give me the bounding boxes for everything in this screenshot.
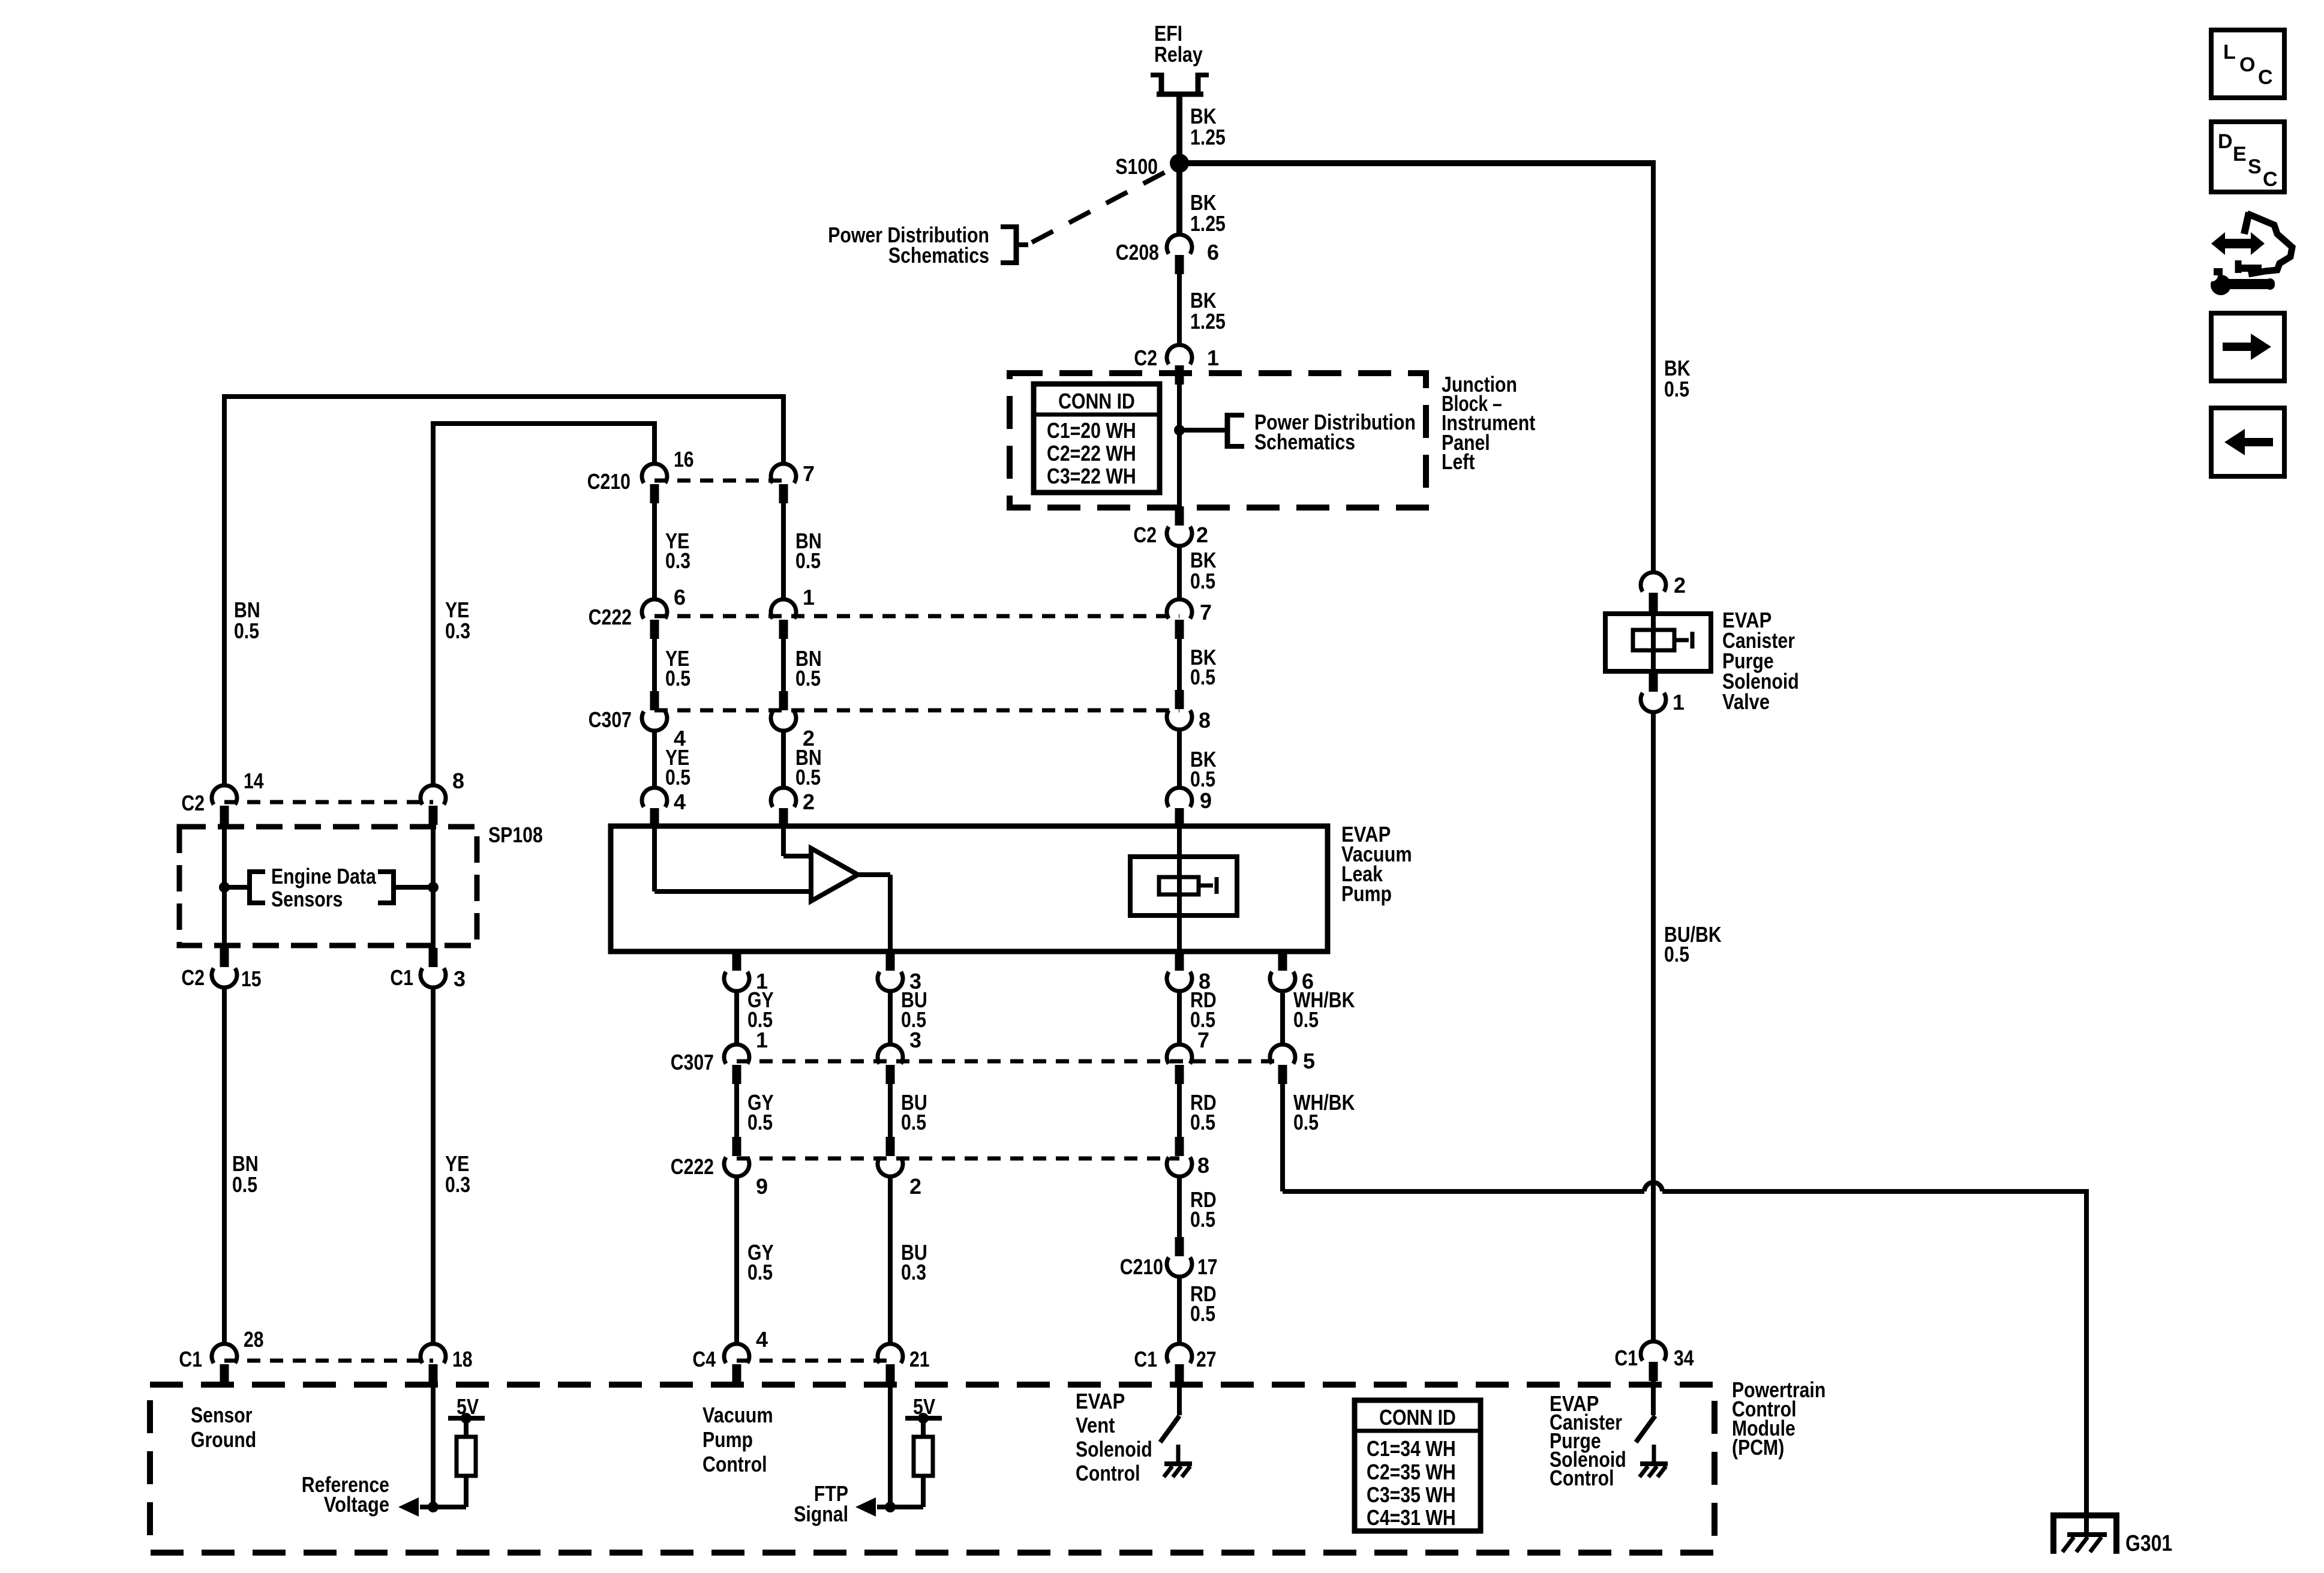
- label C2 (pin2): [1133, 523, 1157, 547]
- label EVAP Canister Purge Solenoid Valve: [1722, 608, 1799, 714]
- label WH/BK 0.5 a: [1293, 987, 1355, 1032]
- label YE 0.3 left lower: [445, 1151, 470, 1197]
- svg-text:S: S: [2248, 155, 2262, 178]
- label YE 0.3 left upper: [445, 598, 470, 643]
- svg-text:C307: C307: [671, 1050, 714, 1074]
- svg-text:0.5: 0.5: [1190, 569, 1215, 593]
- CONN ID table (PCM): [1355, 1400, 1481, 1531]
- svg-text:3: 3: [454, 966, 466, 991]
- connector C1 pin 27: [1167, 1344, 1192, 1383]
- ground symbol G301: [2050, 1512, 2119, 1554]
- svg-text:C: C: [2258, 66, 2273, 89]
- svg-text:0.3: 0.3: [445, 619, 470, 643]
- svg-text:2: 2: [909, 1174, 921, 1199]
- svg-text:18: 18: [452, 1347, 473, 1371]
- label EVAP Canister Purge Solenoid Control: [1550, 1391, 1626, 1490]
- label pin 14: [244, 769, 264, 793]
- svg-text:7: 7: [1197, 1028, 1209, 1052]
- label 5V left: [457, 1394, 479, 1419]
- connector pump pin 3: [878, 951, 903, 991]
- node dot FTP signal: [885, 1502, 896, 1512]
- wire S100 branch to right: [1179, 160, 1656, 166]
- svg-text:C222: C222: [588, 605, 632, 629]
- svg-text:21: 21: [909, 1347, 930, 1371]
- svg-text:7: 7: [803, 461, 815, 486]
- wire RD C222 to C210: [1177, 1176, 1182, 1237]
- connector C307 pin 1: [724, 1044, 749, 1084]
- label RD 0.5 d: [1190, 1281, 1217, 1326]
- wire stub to right bracket: [394, 885, 433, 890]
- wire YE 16 to C222-6: [652, 503, 657, 599]
- label pin 8 (C222l): [1197, 1153, 1209, 1178]
- label pin 16: [674, 447, 694, 472]
- label YE 0.5 mid: [665, 646, 690, 691]
- connector pin 9 (pump): [1167, 788, 1192, 827]
- label Sensor Ground: [191, 1403, 256, 1452]
- wire RD C307 to C222: [1177, 1084, 1182, 1137]
- chassis ground (purge driver): [1640, 1464, 1668, 1477]
- svg-text:6: 6: [674, 585, 686, 610]
- label pin 27: [1196, 1347, 1217, 1371]
- label Reference Voltage: [302, 1472, 389, 1517]
- label EVAP Vent Solenoid Control: [1076, 1389, 1152, 1485]
- dashed connector line C1 28-18: [224, 1359, 433, 1363]
- svg-text:34: 34: [1674, 1346, 1694, 1370]
- connector C307 pin 4: [642, 691, 667, 731]
- wire YE horizontal top: [431, 421, 657, 426]
- label pin 15: [241, 966, 262, 991]
- icon LOC box: [2211, 30, 2284, 98]
- label pin 6 of C208: [1207, 240, 1219, 265]
- label pin 2 (C222l): [909, 1174, 921, 1199]
- wire GY C222 to C4: [734, 1176, 739, 1344]
- wire GY pump to C307: [734, 991, 739, 1044]
- switch arm EVAP vent solenoid driver: [1160, 1416, 1179, 1442]
- EFI relay connector symbol: [1151, 73, 1209, 94]
- svg-text:0.5: 0.5: [1190, 1110, 1215, 1134]
- wire YE column upper: [652, 424, 657, 464]
- arrowhead reference voltage: [398, 1497, 419, 1517]
- svg-text:0.5: 0.5: [665, 765, 690, 789]
- wire resistor left down: [464, 1476, 469, 1507]
- label pin 8 (C2): [452, 769, 464, 793]
- svg-text:0.5: 0.5: [1190, 1207, 1215, 1232]
- wire pump pin4 to op-amp: [654, 827, 811, 891]
- label pin 5 (C307l): [1303, 1049, 1315, 1073]
- dashed connector line C307 4-2-8: [654, 709, 1179, 713]
- label C2 (pin1): [1134, 346, 1157, 370]
- connector C4 pin 4: [724, 1344, 749, 1383]
- connector C222 pin 8: [1167, 1137, 1192, 1176]
- svg-text:15: 15: [241, 966, 262, 991]
- label WH/BK 0.5 b: [1293, 1090, 1355, 1134]
- label BK 0.5 trunk mid: [1190, 645, 1217, 689]
- svg-text:0.5: 0.5: [795, 765, 821, 789]
- label 5V right: [913, 1394, 935, 1419]
- svg-text:0.5: 0.5: [1293, 1007, 1319, 1032]
- svg-text:Ground: Ground: [191, 1427, 256, 1452]
- svg-text:C1=20 WH: C1=20 WH: [1047, 418, 1136, 443]
- connector C210 pin 17: [1167, 1237, 1192, 1277]
- svg-text:C222: C222: [671, 1154, 714, 1179]
- wire sensor-ground through SP108: [222, 825, 227, 948]
- wire 5V to resistor left: [464, 1418, 469, 1437]
- label C222: [588, 605, 632, 629]
- wire BN to C1-28: [222, 987, 227, 1344]
- svg-text:C1: C1: [390, 965, 413, 990]
- label Vacuum Pump Control: [702, 1403, 773, 1476]
- label Power Distribution Schematics (top): [828, 223, 989, 268]
- wire BU pump to C307: [888, 991, 893, 1044]
- node dot on BN wire (engine data): [219, 882, 230, 893]
- wire pump pin2 to op-amp: [783, 827, 811, 856]
- label YE 0.5 low: [665, 745, 690, 789]
- svg-text:C2: C2: [1133, 523, 1157, 547]
- label pump pin 6: [1302, 969, 1314, 993]
- svg-text:0.5: 0.5: [795, 666, 821, 691]
- label BN 0.5 low: [795, 745, 822, 789]
- svg-text:0.5: 0.5: [234, 619, 259, 643]
- svg-text:1.25: 1.25: [1190, 309, 1226, 334]
- icon schematic-tool (arrow and wrench): [2206, 212, 2292, 295]
- svg-text:C1: C1: [1134, 1347, 1157, 1371]
- label YE 0.3 mid: [665, 529, 690, 573]
- connector C208 pin 6: [1167, 235, 1192, 274]
- svg-text:Control: Control: [1076, 1461, 1140, 1485]
- label GY 0.5 b: [747, 1090, 774, 1134]
- svg-text:2: 2: [803, 789, 815, 814]
- wire vent driver to ground stub: [1176, 1445, 1181, 1464]
- bracket right (engine data sensors): [378, 869, 394, 905]
- label pin 9: [1200, 788, 1212, 813]
- label BK 1.25 below S100: [1190, 190, 1226, 236]
- label pump pin 2: [803, 789, 815, 814]
- label pin 34: [1674, 1346, 1694, 1370]
- svg-text:Voltage: Voltage: [324, 1492, 389, 1517]
- wire BN 7 to C222-1: [781, 503, 786, 599]
- label RD 0.5 b: [1190, 1090, 1217, 1134]
- wire 8 to 9 (BK 0.5): [1177, 730, 1182, 788]
- icon forward arrow box: [2211, 313, 2284, 381]
- svg-text:C210: C210: [1120, 1254, 1163, 1279]
- op-amp triangle (pump): [811, 848, 858, 901]
- wire 5V to resistor right: [921, 1418, 926, 1437]
- connector purge valve pin 1: [1641, 673, 1666, 712]
- svg-text:CONN ID: CONN ID: [1058, 389, 1135, 413]
- svg-text:Schematics: Schematics: [1254, 430, 1355, 454]
- wire 18 into PCM: [431, 1383, 436, 1507]
- svg-text:Signal: Signal: [794, 1502, 848, 1526]
- svg-text:Relay: Relay: [1154, 42, 1203, 67]
- wire BN C307 to pump: [781, 731, 786, 788]
- label C307 (lower): [671, 1050, 714, 1074]
- PCM dashed box: [150, 1385, 1715, 1553]
- wire trunk through pump: [1177, 826, 1182, 951]
- connector C2 pin 1: [1167, 345, 1192, 385]
- dashed pointer line to S100: [1032, 172, 1166, 242]
- svg-text:C210: C210: [587, 469, 630, 494]
- svg-text:1.25: 1.25: [1190, 211, 1226, 236]
- svg-text:CONN ID: CONN ID: [1379, 1405, 1456, 1430]
- label BU 0.3 c: [901, 1240, 927, 1284]
- label pin 2 (C307): [803, 726, 815, 751]
- svg-text:5: 5: [1303, 1049, 1315, 1073]
- connector C222 pin 1: [771, 599, 796, 639]
- label pin 2: [1196, 523, 1208, 547]
- svg-text:C4=31 WH: C4=31 WH: [1367, 1505, 1456, 1530]
- label BN 0.5 left lower: [232, 1151, 259, 1197]
- label purge valve pin 2: [1674, 573, 1686, 598]
- label BK 1.25 upper: [1190, 104, 1226, 149]
- svg-text:0.5: 0.5: [747, 1260, 773, 1284]
- connector C1 pin 28: [212, 1344, 237, 1383]
- svg-text:G301: G301: [2125, 1531, 2172, 1556]
- label FTP Signal: [794, 1481, 848, 1526]
- arrowhead FTP signal: [855, 1497, 876, 1517]
- connector pin 8 (trunk): [1167, 690, 1192, 730]
- label pump pin 3: [909, 969, 921, 993]
- EVAP vacuum leak pump box: [611, 826, 1328, 951]
- svg-text:3: 3: [909, 1028, 921, 1052]
- connector C1 pin 18: [421, 1344, 446, 1383]
- svg-text:17: 17: [1197, 1254, 1218, 1279]
- label pin 7 (C307l): [1197, 1028, 1209, 1052]
- wire 27 into PCM (vent driver): [1177, 1383, 1182, 1415]
- label C1 (3): [390, 965, 413, 990]
- dashed connector line C4 4-21: [737, 1359, 890, 1363]
- label EVAP Vacuum Leak Pump: [1341, 822, 1412, 906]
- svg-text:EVAP: EVAP: [1076, 1389, 1125, 1413]
- label Powertrain Control Module (PCM): [1732, 1377, 1825, 1460]
- bracket for Power Distribution Schematics (top): [1001, 224, 1028, 265]
- svg-text:0.5: 0.5: [901, 1110, 926, 1134]
- wire purge valve to C1-34 (BU/BK 0.5): [1651, 712, 1656, 1341]
- svg-text:0.3: 0.3: [901, 1260, 926, 1284]
- wire 7 to 8 (BK 0.5): [1177, 639, 1182, 690]
- svg-text:Solenoid: Solenoid: [1076, 1437, 1152, 1461]
- bracket left (engine data sensors): [250, 869, 265, 905]
- label purge valve pin 1: [1673, 690, 1685, 715]
- svg-text:C1: C1: [179, 1347, 202, 1371]
- svg-text:E: E: [2233, 143, 2247, 166]
- svg-text:4: 4: [674, 789, 686, 814]
- CONN ID table (junction block): [1034, 384, 1160, 493]
- svg-text:C3=22 WH: C3=22 WH: [1047, 464, 1136, 488]
- label C1 (34): [1614, 1346, 1638, 1370]
- svg-text:1: 1: [756, 1028, 768, 1052]
- label C1 (27): [1134, 1347, 1157, 1371]
- wire stub to left bracket: [224, 885, 250, 890]
- svg-text:D: D: [2218, 130, 2233, 153]
- svg-text:C4: C4: [692, 1347, 716, 1371]
- crossover hop over BU/BK wire: [1644, 1182, 1662, 1191]
- svg-text:8: 8: [1197, 1153, 1209, 1178]
- label S100: [1115, 154, 1158, 179]
- svg-text:0.5: 0.5: [1293, 1110, 1319, 1134]
- svg-text:0.5: 0.5: [795, 548, 821, 573]
- svg-text:2: 2: [1674, 573, 1686, 598]
- connector pump pin 8: [1167, 951, 1192, 991]
- label pin 8 trunk: [1199, 708, 1211, 733]
- wire YE C222 to C307: [652, 639, 657, 691]
- svg-text:C1: C1: [1614, 1346, 1638, 1370]
- connector C222 pin 2: [878, 1137, 903, 1176]
- label C210 (17): [1120, 1254, 1163, 1279]
- label BK 0.5 trunk lower: [1190, 747, 1217, 791]
- label pump pin 4: [674, 789, 686, 814]
- wire left column YE upper: [431, 424, 436, 785]
- svg-text:16: 16: [674, 447, 694, 472]
- resistor R left (reference voltage): [457, 1437, 476, 1476]
- switch arm EVAP purge solenoid driver: [1636, 1416, 1655, 1442]
- svg-text:C208: C208: [1116, 240, 1159, 265]
- wire BN C222 to C307: [781, 639, 786, 691]
- connector C1 pin 3: [421, 948, 446, 987]
- svg-text:0.3: 0.3: [665, 548, 690, 573]
- svg-text:C2: C2: [181, 791, 205, 815]
- svg-text:Vacuum: Vacuum: [702, 1403, 773, 1427]
- svg-text:C307: C307: [588, 707, 632, 732]
- svg-text:C2: C2: [181, 965, 205, 990]
- node dot reference voltage: [428, 1502, 439, 1512]
- label GY 0.5 a: [747, 987, 774, 1032]
- svg-text:14: 14: [244, 769, 264, 793]
- pump solenoid coil element: [1159, 877, 1217, 894]
- connector pin 7 (trunk): [1167, 599, 1192, 639]
- label BU/BK 0.5: [1664, 922, 1722, 966]
- label Engine Data Sensors: [271, 864, 377, 911]
- svg-text:Pump: Pump: [1341, 881, 1392, 906]
- svg-text:Control: Control: [1550, 1466, 1614, 1490]
- label pin 1: [1207, 346, 1219, 370]
- svg-text:0.5: 0.5: [1664, 942, 1689, 966]
- icon back arrow box: [2211, 408, 2284, 476]
- wire RD pump to C307: [1177, 991, 1182, 1044]
- wire WHBK pump to C307: [1280, 991, 1285, 1044]
- wire ground run horizontal left part: [1283, 1189, 1644, 1194]
- svg-text:Left: Left: [1442, 449, 1475, 474]
- label C210: [587, 469, 630, 494]
- connector pump pin 6: [1270, 951, 1295, 991]
- wire C2-2 to connector 7 (BK 0.5): [1177, 546, 1182, 599]
- connector purge valve pin 2: [1641, 572, 1666, 612]
- svg-text:C: C: [2263, 168, 2278, 191]
- svg-text:0.5: 0.5: [665, 666, 690, 691]
- wire ground run horizontal right part: [1662, 1189, 2089, 1194]
- svg-text:Engine Data: Engine Data: [271, 864, 377, 888]
- label pin 7 trunk: [1200, 600, 1212, 625]
- label pin 28: [244, 1327, 264, 1352]
- wire RD C210 to C1-27: [1177, 1277, 1182, 1344]
- connector C2 pin 14: [212, 785, 237, 825]
- connector C4 pin 21: [878, 1344, 903, 1383]
- connector C307 pin 3: [878, 1044, 903, 1084]
- label C2 (14): [181, 791, 205, 815]
- label GY 0.5 c: [747, 1240, 774, 1284]
- svg-text:Sensors: Sensors: [271, 887, 343, 911]
- wire through purge valve: [1651, 612, 1656, 673]
- label BN 0.5 left upper: [234, 598, 260, 643]
- svg-text:8: 8: [1199, 708, 1211, 733]
- label pin 1 (C307l): [756, 1028, 768, 1052]
- wire C2-1 into junction block: [1177, 385, 1182, 506]
- svg-text:SP108: SP108: [488, 822, 543, 847]
- svg-text:Sensor: Sensor: [191, 1403, 253, 1427]
- svg-text:C3=35 WH: C3=35 WH: [1367, 1482, 1456, 1507]
- wire BU C222 to PCM 21: [888, 1176, 893, 1344]
- svg-text:1: 1: [1673, 690, 1685, 715]
- EVAP canister purge solenoid valve box: [1605, 614, 1711, 671]
- label pin 9 (C222l): [756, 1174, 768, 1199]
- label pin 3 (C1): [454, 966, 466, 991]
- dashed connector line C222 6-1-7: [654, 614, 1179, 619]
- label BU 0.5 a: [901, 987, 927, 1032]
- 5V supply bar right: [905, 1413, 942, 1424]
- wire 21 into PCM: [888, 1383, 893, 1507]
- connector C307 pin 5: [1270, 1044, 1295, 1084]
- wire YE C307 to pump: [652, 731, 657, 788]
- connector C2 pin 8: [421, 785, 446, 825]
- svg-text:C2=22 WH: C2=22 WH: [1047, 441, 1136, 466]
- dashed connector line C222 9-2-8: [737, 1157, 1179, 1161]
- svg-text:O: O: [2239, 53, 2255, 76]
- svg-text:Vent: Vent: [1076, 1413, 1115, 1437]
- connector pump pin 1: [724, 951, 749, 991]
- svg-text:L: L: [2223, 41, 2236, 64]
- node dot on YE wire (engine data): [428, 882, 439, 893]
- svg-text:2: 2: [1196, 523, 1208, 547]
- connector pump pin 2: [771, 788, 796, 827]
- svg-text:1: 1: [803, 585, 815, 610]
- connector C210 pin 7: [771, 464, 796, 503]
- svg-text:28: 28: [244, 1327, 264, 1352]
- svg-text:0.5: 0.5: [1190, 665, 1215, 689]
- connector C307 pin 7: [1167, 1044, 1192, 1084]
- svg-text:0.5: 0.5: [232, 1172, 257, 1197]
- connector C2 pin 15: [212, 948, 237, 987]
- svg-text:0.5: 0.5: [1190, 1301, 1215, 1326]
- wire EFI relay to C208 (BK 1.25): [1176, 94, 1182, 235]
- svg-text:8: 8: [452, 769, 464, 793]
- bracket for Power Distribution Schematics (junction block): [1227, 413, 1244, 449]
- label BN 0.5 mid2: [795, 646, 822, 691]
- label G301: [2125, 1531, 2172, 1556]
- svg-text:Control: Control: [702, 1452, 767, 1476]
- svg-text:9: 9: [756, 1174, 768, 1199]
- wire 34 into PCM (purge driver): [1651, 1381, 1656, 1415]
- svg-text:C2: C2: [1134, 346, 1157, 370]
- chassis ground (vent driver): [1164, 1464, 1192, 1477]
- label C307 (upper): [588, 707, 632, 732]
- wire WH/BK C307-5 to ground run: [1280, 1084, 1285, 1191]
- label Junction Block - Instrument Panel Left: [1442, 372, 1535, 474]
- svg-text:0.5: 0.5: [1664, 377, 1689, 401]
- label RD 0.5 c: [1190, 1187, 1217, 1232]
- label pin 1 (C222): [803, 585, 815, 610]
- svg-text:7: 7: [1200, 600, 1212, 625]
- connector C307 pin 2: [771, 691, 796, 731]
- label Power Distribution Schematics (junction block): [1254, 410, 1416, 454]
- resistor R right (FTP signal): [914, 1437, 933, 1476]
- connector C210 pin 16: [642, 464, 667, 503]
- svg-text:1.25: 1.25: [1190, 125, 1226, 149]
- 5V supply bar left: [448, 1413, 485, 1424]
- label BK 1.25 middle: [1190, 288, 1226, 334]
- label pin 17: [1197, 1254, 1218, 1279]
- wire right branch down (BK 0.5): [1651, 161, 1656, 572]
- label BN 0.5 mid1: [795, 529, 822, 573]
- svg-text:4: 4: [756, 1327, 768, 1352]
